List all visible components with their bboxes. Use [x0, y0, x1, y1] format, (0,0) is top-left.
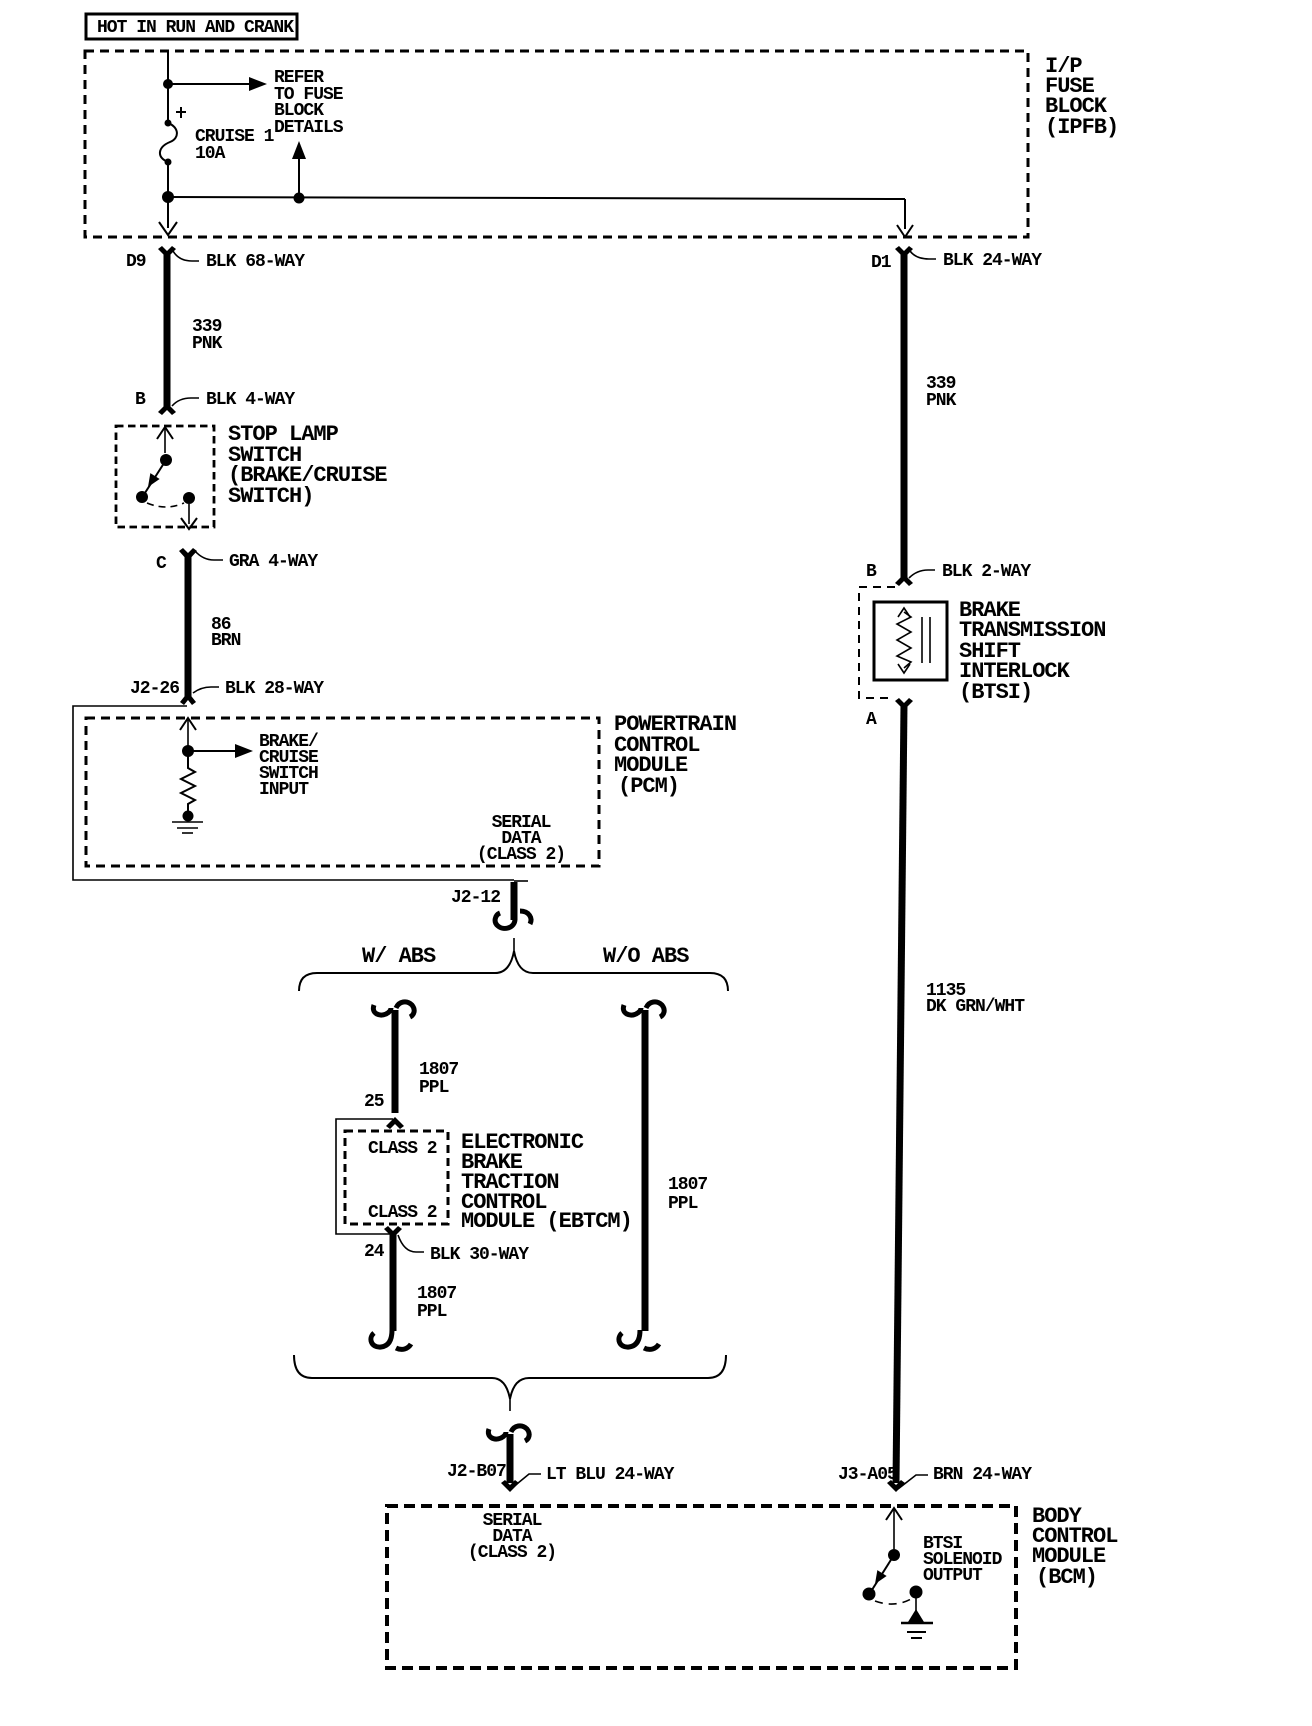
- svg-text:1807: 1807: [417, 1284, 456, 1304]
- wire fuse to bus: [167, 162, 169, 197]
- PCM dashed box: [86, 718, 599, 866]
- svg-text:INPUT: INPUT: [259, 780, 309, 800]
- wire exit to D9: [159, 197, 177, 235]
- connector J2-12 serial data out: [451, 881, 531, 928]
- svg-text:10A: 10A: [195, 144, 226, 164]
- svg-text:OUTPUT: OUTPUT: [923, 1566, 983, 1586]
- svg-text:C: C: [156, 554, 167, 574]
- svg-text:1807: 1807: [419, 1060, 458, 1080]
- svg-text:W/O ABS: W/O ABS: [603, 944, 689, 969]
- svg-text:PPL: PPL: [417, 1302, 447, 1322]
- arrow brake/cruise switch input: [188, 744, 253, 758]
- label HOT IN RUN AND CRANK box: [86, 14, 297, 39]
- label SERIAL DATA (CLASS 2) PCM: [477, 813, 565, 865]
- switch contact node right: [183, 492, 195, 504]
- svg-text:GRA 4-WAY: GRA 4-WAY: [229, 552, 318, 572]
- brace merge to BCM: [294, 1355, 726, 1399]
- svg-text:J3-A05: J3-A05: [838, 1465, 897, 1485]
- svg-text:(CLASS 2): (CLASS 2): [468, 1543, 556, 1563]
- resistor in PCM: [181, 751, 195, 812]
- BTSI switch throw dashed arc: [875, 1599, 911, 1604]
- switch pivot node: [160, 454, 172, 466]
- connector C GRA 4-WAY: [156, 548, 318, 574]
- label ELECTRONIC BRAKE TRACTION CONTROL MODULE (EBTCM): [461, 1130, 632, 1234]
- EBTCM connector outline: [336, 1119, 393, 1234]
- svg-text:(PCM): (PCM): [618, 774, 679, 799]
- node bus junction 2: [294, 193, 305, 204]
- svg-text:(IPFB): (IPFB): [1045, 115, 1118, 140]
- svg-text:MODULE (EBTCM): MODULE (EBTCM): [461, 1209, 632, 1234]
- wire from IPFB top to fuse: [167, 51, 169, 123]
- connector J3-A05 BRN 24-WAY: [838, 1465, 1032, 1492]
- PCM connector outline: [73, 706, 514, 880]
- switch throw dashed arc: [147, 503, 184, 507]
- svg-text:BLK 24-WAY: BLK 24-WAY: [943, 251, 1042, 271]
- svg-text:BLK 2-WAY: BLK 2-WAY: [942, 562, 1031, 582]
- BTSI solenoid core lines: [922, 617, 930, 663]
- label BRAKE/CRUISE SWITCH INPUT: [259, 732, 319, 800]
- BTSI switch pivot node: [888, 1549, 900, 1561]
- wire 339 PNK left: [167, 252, 223, 408]
- node brake/cruise input: [182, 745, 194, 757]
- label I/P FUSE BLOCK (IPFB): [1045, 54, 1118, 140]
- label POWERTRAIN CONTROL MODULE (PCM): [614, 712, 736, 799]
- connector bottom of right branch: [619, 1330, 659, 1349]
- svg-text:24: 24: [364, 1242, 385, 1262]
- connector B BLK 2-WAY: [866, 562, 1031, 586]
- svg-text:J2-B07: J2-B07: [447, 1462, 506, 1482]
- BTSI solenoid coil: [897, 608, 911, 673]
- svg-text:(BCM): (BCM): [1036, 1565, 1097, 1590]
- connector D9 BLK 68-WAY: [126, 246, 305, 272]
- pin 25 arrow into EBTCM: [364, 1092, 404, 1129]
- fuse CRUISE 1 10A: [160, 107, 275, 166]
- wire arrow up to details: [292, 141, 306, 198]
- BTSI switch contact node right: [910, 1586, 923, 1599]
- svg-text:B: B: [866, 562, 877, 582]
- svg-text:J2-26: J2-26: [130, 679, 179, 699]
- svg-text:CLASS 2: CLASS 2: [368, 1139, 437, 1159]
- I/P fuse block IPFB dashed box: [85, 51, 1028, 237]
- svg-text:(BTSI): (BTSI): [959, 680, 1032, 705]
- wire 339 PNK right: [904, 252, 957, 578]
- svg-text:PNK: PNK: [926, 391, 957, 411]
- svg-text:25: 25: [364, 1092, 384, 1112]
- svg-text:PNK: PNK: [192, 334, 223, 354]
- wire out of switch: [181, 504, 197, 529]
- label BODY CONTROL MODULE (BCM): [1032, 1504, 1118, 1590]
- wire 86 BRN: [188, 553, 241, 697]
- label BTSI SOLENOID OUTPUT: [923, 1534, 1003, 1586]
- connector pin 24 BLK 30-WAY: [364, 1226, 529, 1265]
- svg-text:BLK 30-WAY: BLK 30-WAY: [430, 1245, 529, 1265]
- label SERIAL DATA (CLASS 2) BCM: [468, 1511, 556, 1563]
- svg-text:J2-12: J2-12: [451, 888, 500, 908]
- wire to ground: [915, 1598, 917, 1612]
- wire bus across fuse block: [168, 197, 905, 199]
- svg-text:DK GRN/WHT: DK GRN/WHT: [926, 997, 1025, 1017]
- PCM input pin arrow: [180, 718, 196, 746]
- svg-text:BLK 4-WAY: BLK 4-WAY: [206, 390, 295, 410]
- node junction above fuse: [163, 79, 173, 89]
- switch contact arrow up: [157, 427, 173, 453]
- wire 1807 PPL lower left: [393, 1232, 456, 1331]
- wire brace cusp tail bottom: [509, 1399, 511, 1411]
- brace W/ABS split: [299, 951, 728, 991]
- connector top of right branch: [623, 1002, 664, 1017]
- EBTCM dashed box: [345, 1131, 448, 1224]
- ground triangle: [908, 1609, 924, 1622]
- BCM dashed box: [387, 1506, 1016, 1668]
- switch contact node left: [136, 491, 148, 503]
- BTSI solenoid box: [874, 602, 947, 680]
- label REFER TO FUSE BLOCK DETAILS: [274, 68, 344, 138]
- BTSI switch contact node left: [863, 1588, 876, 1601]
- BTSI connector outline: [859, 587, 895, 698]
- svg-text:W/ ABS: W/ ABS: [362, 944, 436, 969]
- stop lamp switch box: [116, 426, 214, 527]
- ground BCM: [901, 1623, 933, 1638]
- connector bottom of left branch: [371, 1330, 411, 1349]
- connector J2-B07 LT BLU 24-WAY: [447, 1426, 675, 1492]
- svg-text:BRN 24-WAY: BRN 24-WAY: [933, 1465, 1032, 1485]
- connector D1 BLK 24-WAY: [871, 246, 1042, 273]
- svg-text:(CLASS 2): (CLASS 2): [477, 845, 565, 865]
- svg-text:PPL: PPL: [419, 1078, 449, 1098]
- svg-text:A: A: [866, 710, 877, 730]
- svg-text:BLK 68-WAY: BLK 68-WAY: [206, 252, 305, 272]
- switch arm with arrowhead: [143, 460, 166, 496]
- wire 1807 PPL upper left: [395, 1010, 458, 1113]
- label BRAKE TRANSMISSION SHIFT INTERLOCK (BTSI): [959, 598, 1105, 705]
- wire arrow to fuse block details: [168, 77, 267, 91]
- svg-text:PPL: PPL: [668, 1194, 698, 1214]
- wire brace cusp tail: [513, 938, 515, 951]
- label STOP LAMP SWITCH (BRAKE/CRUISE SWITCH): [228, 422, 387, 509]
- svg-text:CLASS 2: CLASS 2: [368, 1203, 437, 1223]
- svg-text:SWITCH): SWITCH): [228, 484, 313, 509]
- svg-text:BRN: BRN: [211, 631, 241, 651]
- connector top of left branch: [373, 1002, 414, 1017]
- connector J2-26 BLK 28-WAY: [130, 679, 324, 705]
- node bus junction: [162, 191, 174, 203]
- svg-text:D1: D1: [871, 253, 892, 273]
- wire 1807 PPL right branch: [645, 1010, 707, 1331]
- connector A: [866, 698, 913, 730]
- svg-text:D9: D9: [126, 252, 146, 272]
- ground in PCM: [172, 822, 203, 833]
- BCM input pin arrow: [886, 1508, 902, 1549]
- node above ground: [183, 811, 194, 822]
- wire bus drop to D1: [897, 199, 913, 237]
- svg-text:DETAILS: DETAILS: [274, 118, 344, 138]
- svg-text:LT BLU 24-WAY: LT BLU 24-WAY: [546, 1465, 675, 1485]
- svg-text:1807: 1807: [668, 1175, 707, 1195]
- svg-text:BLK 28-WAY: BLK 28-WAY: [225, 679, 324, 699]
- svg-text:HOT IN RUN AND CRANK: HOT IN RUN AND CRANK: [97, 18, 294, 38]
- svg-text:B: B: [135, 390, 146, 410]
- BTSI switch arm: [870, 1555, 894, 1593]
- wire 1135 DK GRN/WHT: [896, 704, 1025, 1483]
- connector B BLK 4-WAY: [135, 390, 295, 415]
